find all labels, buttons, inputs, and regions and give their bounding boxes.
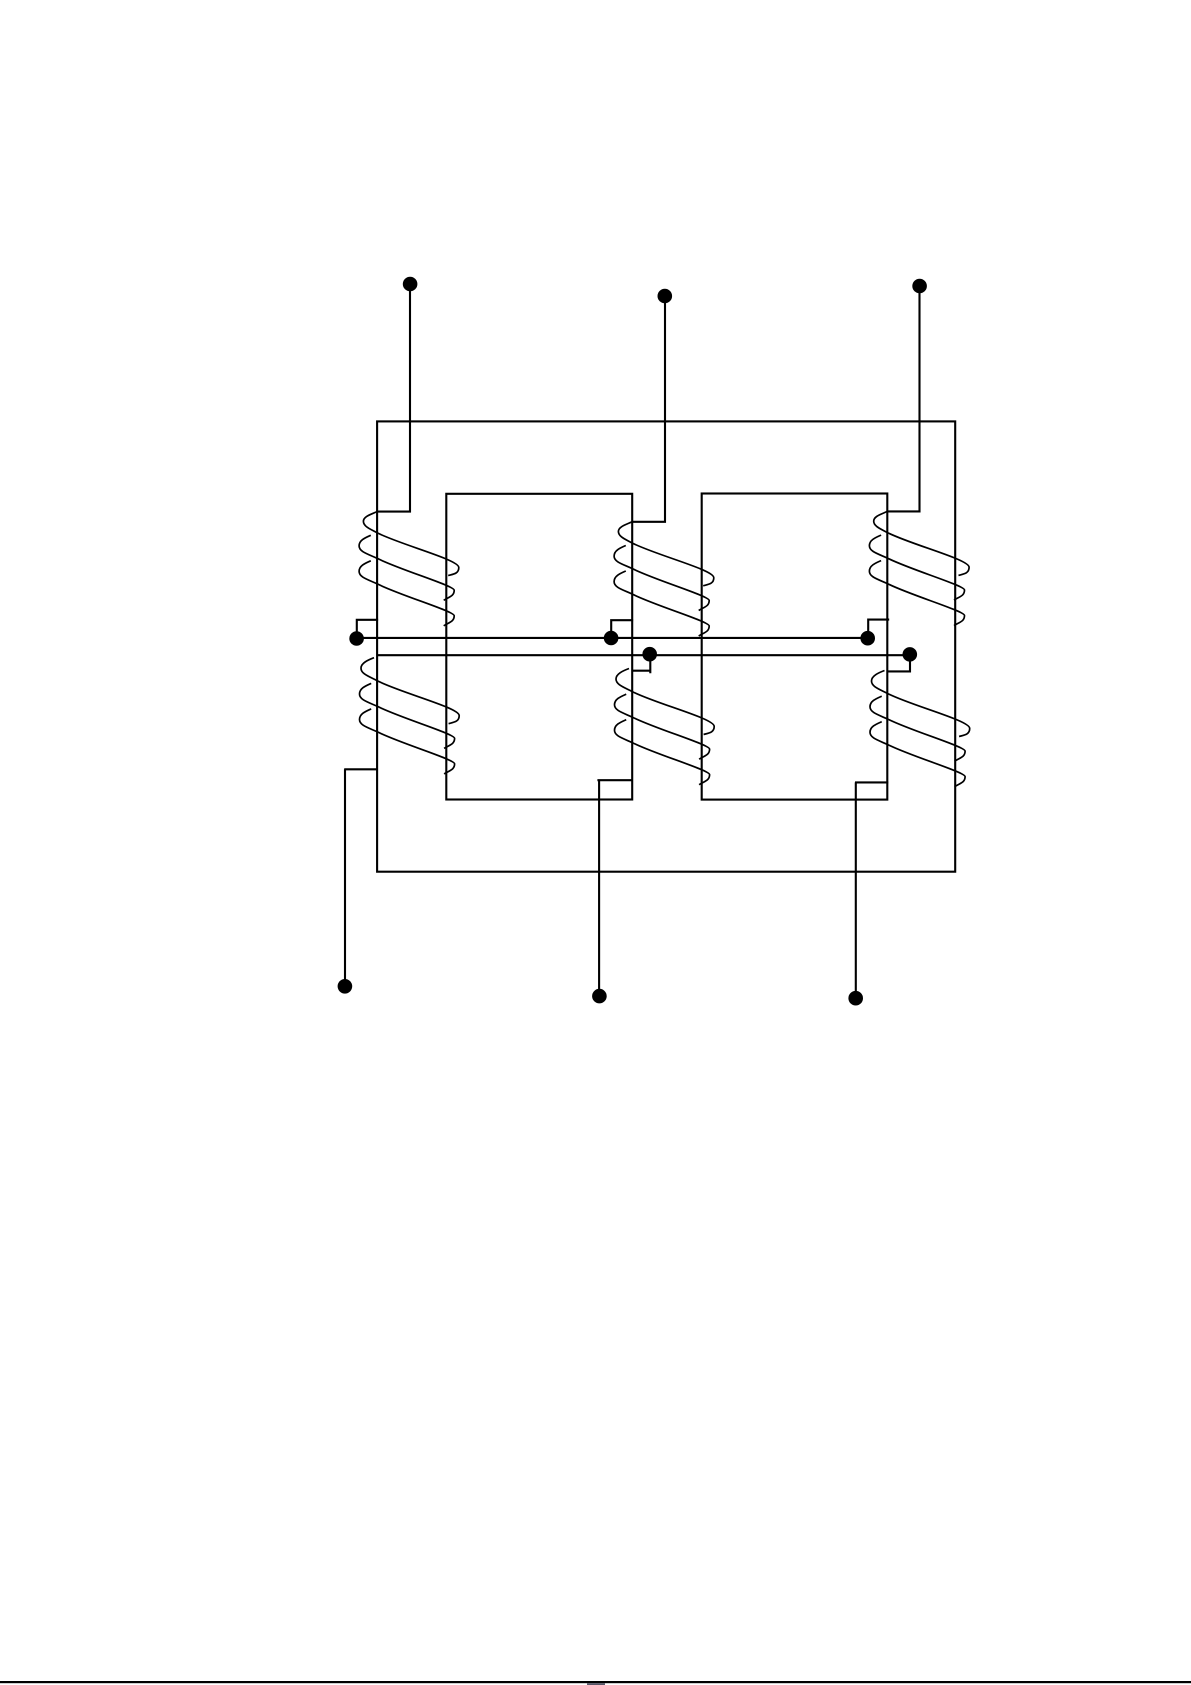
terminal X2 <box>592 989 607 1004</box>
terminal X1 <box>338 979 353 994</box>
terminal H3 <box>912 279 927 294</box>
junction node M2 <box>642 647 657 662</box>
junction node M3 <box>903 647 918 662</box>
wire X2 lead <box>597 780 632 996</box>
core outer outline <box>377 421 955 871</box>
wire X1 lead <box>344 769 378 986</box>
winding S3 (bottom right leg) <box>870 671 970 787</box>
core window left <box>446 494 632 800</box>
junction node N1 <box>349 631 364 646</box>
wire H2 lead <box>632 296 665 522</box>
terminal H2 <box>658 289 673 304</box>
wire P1 bottom jog <box>357 620 378 638</box>
winding P1 (top left leg) <box>359 512 459 626</box>
wire P2 bottom jog <box>611 620 633 638</box>
wire P3 bottom jog <box>868 620 889 638</box>
core window right <box>702 494 888 800</box>
wire H3 lead <box>887 286 919 511</box>
junction node N3 <box>860 631 875 646</box>
winding P2 (top middle leg) <box>614 522 714 636</box>
winding P3 (top right leg) <box>869 511 969 625</box>
page footer rule <box>0 1681 1191 1683</box>
wire bus W2 (secondary neutral) <box>377 654 910 656</box>
terminal X3 <box>848 991 863 1006</box>
wire S3 top jog <box>887 654 910 672</box>
terminal H1 <box>403 277 418 292</box>
winding S2 (bottom middle leg) <box>615 669 715 785</box>
wire H1 lead <box>377 284 410 512</box>
junction node N2 <box>604 631 619 646</box>
winding S1 (bottom left leg) <box>360 658 460 774</box>
page number smudge <box>587 1683 605 1685</box>
wire X3 lead <box>855 782 888 998</box>
wire bus W1 (primary neutral) <box>357 637 868 639</box>
wire S2 top jog <box>632 654 650 673</box>
